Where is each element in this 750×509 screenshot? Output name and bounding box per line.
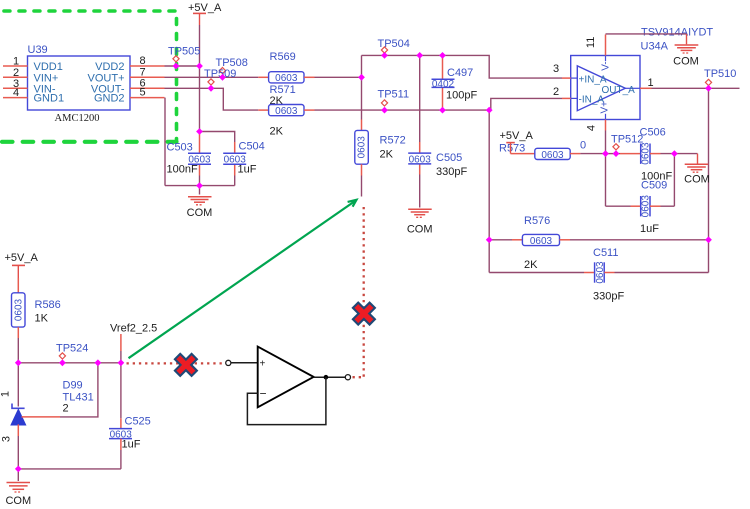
svg-text:COM: COM [673,56,699,68]
wire bottom rail [18,468,121,470]
svg-text:R571: R571 [270,84,296,96]
svg-text:0402: 0402 [432,79,455,90]
capacitor C509 [606,154,675,235]
test point TP504 [378,38,410,53]
svg-text:U39: U39 [28,44,48,56]
op-amp pin 4 [586,120,606,154]
svg-text:8: 8 [140,55,146,67]
svg-text:VDD2: VDD2 [95,61,124,73]
test point TP524 [56,343,88,360]
wire GND2 down to cap rail [164,98,166,186]
svg-text:TP524: TP524 [56,343,88,355]
junction C505 / top rail [416,52,423,59]
svg-text:R586: R586 [35,299,61,311]
svg-text:11: 11 [585,37,597,48]
test point TP511 [378,89,410,107]
IC U39 pin 8 stub [130,55,165,67]
test point TP509 [204,68,236,85]
capacitor C511 [489,240,708,303]
junction TP504 / top rail [381,52,388,59]
capacitor C497 [432,55,478,109]
svg-text:0603: 0603 [641,142,652,165]
junction TP511 / R571 wire [381,107,388,114]
svg-text:C503: C503 [167,142,193,154]
svg-text:GND1: GND1 [34,93,65,105]
svg-text:C511: C511 [593,247,618,259]
resistor R569 [269,51,315,107]
svg-text:TP511: TP511 [378,89,410,101]
svg-text:U34A: U34A [641,41,669,53]
svg-text:COM: COM [407,224,433,236]
red dotted stub to buffer output [353,376,365,378]
svg-text:+5V_A: +5V_A [188,2,222,14]
resistor R576 [489,215,708,271]
wire pin11 to COM [606,33,687,35]
resistor R571 [269,84,315,138]
buffer op-amp annotation [226,347,351,425]
ground COM U34A [673,34,699,68]
wire VDD2 to +5V rail [165,65,200,67]
junction VDD2 / +5V_A rail [196,63,203,70]
wire op-amp output [652,88,740,240]
op-amp pin 11 [585,35,606,56]
svg-text:COM: COM [187,207,213,219]
svg-text:5: 5 [140,87,146,99]
junction R576 right / output vertical [705,236,712,243]
IC U39 pin 2 [3,67,28,79]
svg-text:2K: 2K [524,259,538,271]
junction TP510 / output node [705,85,712,92]
svg-text:1uF: 1uF [122,439,141,451]
svg-text:COM: COM [5,495,31,507]
test point TP510 [704,68,736,86]
junction R569 / R572 node [358,74,365,81]
junction Vref net / C525 [118,359,125,366]
junction pin4 / R573 / C509 node [602,150,609,157]
svg-text:0603: 0603 [595,261,606,284]
junction R586 / Vref rail [15,359,22,366]
red dotted vertical (deleted wire) [363,207,365,377]
deleted-connection marker X1 [180,359,191,370]
svg-text:4: 4 [13,87,19,99]
svg-text:0603: 0603 [409,154,432,165]
svg-text:+5V_A: +5V_A [5,252,39,264]
green dashed highlight box [2,11,177,142]
svg-text:3: 3 [553,63,559,75]
svg-text:330pF: 330pF [593,291,624,303]
svg-text:0603: 0603 [541,150,564,161]
svg-text:1K: 1K [35,313,49,325]
wire cap bottom rail [165,185,235,187]
svg-text:0603: 0603 [641,195,652,218]
svg-text:1uF: 1uF [640,223,659,235]
junction D99 ref / Vref rail [95,359,102,366]
ground COM under C503 [187,186,213,219]
wire +5V_A vertical rail [199,25,201,132]
svg-text:C509: C509 [641,180,667,192]
svg-text:+IN_A: +IN_A [579,74,607,85]
junction C506-C509 / ground node [671,150,678,157]
svg-text:1: 1 [0,391,12,397]
ground COM right of C506 [684,154,710,186]
svg-text:R572: R572 [380,135,406,147]
svg-text:Vref2_2.5: Vref2_2.5 [110,323,157,335]
svg-text:1uF: 1uF [238,164,257,176]
junction TP509 / VOUT- wire [208,85,215,92]
wire R571 row to opamp pin2 [315,109,490,111]
svg-text:C497: C497 [447,67,473,79]
deleted-connection marker X2 [358,308,369,319]
capacitor C504 [223,141,265,186]
svg-text:TP510: TP510 [704,68,736,80]
resistor R586 [12,278,61,363]
IC U39 [28,44,131,124]
svg-text:C504: C504 [239,141,265,153]
svg-text:OUT_A: OUT_A [602,85,636,96]
junction TL431 anode / ground rail [15,466,22,473]
IC U39 pin 1 [3,56,28,68]
svg-text:1: 1 [13,56,19,68]
svg-text:R573: R573 [499,143,525,155]
svg-text:2K: 2K [380,149,394,161]
resistor R573 [511,140,606,161]
wire Vref rail [18,362,121,364]
svg-text:C506: C506 [640,127,666,139]
svg-text:R576: R576 [524,215,550,227]
svg-text:1: 1 [648,77,654,89]
svg-text:C525: C525 [125,416,151,428]
svg-text:TSV914AIYDT: TSV914AIYDT [641,27,713,39]
test point TP505 [168,46,200,62]
op-amp U34A [571,27,714,120]
op-amp pin 3 stub [553,63,571,78]
svg-text:+: + [260,359,266,370]
red dotted horizontal (deleted wire) [127,362,226,364]
wire TP512 node to C506 [606,153,621,155]
svg-text:R569: R569 [270,51,296,63]
wire R569 to node [315,76,362,78]
power +5V_A bottom left [5,252,39,278]
svg-text:V+: V+ [600,101,611,114]
svg-text:2K: 2K [270,126,284,138]
test point TP508 [216,57,248,74]
capacitor C506 [620,127,672,183]
capacitor C525 [109,363,151,469]
svg-text:C505: C505 [436,152,462,164]
op-amp pin 1 stub [640,77,654,89]
shunt regulator D99 TL431 [0,363,98,469]
svg-text:V-: V- [600,61,611,70]
junction pin2 / feedback node [486,107,493,114]
svg-text:4: 4 [586,125,598,131]
test point TP512 [611,134,643,150]
junction feedback / R576 left [486,236,493,243]
IC U39 pin 4 [3,87,28,99]
svg-text:D99: D99 [63,380,83,392]
svg-text:VDD1: VDD1 [34,61,63,73]
op-amp pin 2 stub [553,86,571,98]
svg-text:−: − [260,387,267,401]
power +5V_A top [188,2,222,25]
junction TP505 / VDD2 wire [173,63,180,70]
junction TP508 / VOUT+ wire [219,74,226,81]
svg-text:0603: 0603 [275,73,298,84]
svg-text:2: 2 [553,86,559,98]
svg-text:3: 3 [1,436,13,442]
wire feedback left vertical [488,110,490,272]
IC U39 pin 7 stub [130,66,165,78]
ground COM under C505 [407,175,433,236]
junction C503 bottom / ground rail [196,182,203,189]
svg-text:100pF: 100pF [446,90,477,102]
svg-text:100nF: 100nF [167,164,198,176]
power +5V_A at R573 [499,130,533,155]
svg-text:COM: COM [684,174,710,186]
wire node vertical to R572 [361,55,363,119]
junction TP524 / Vref rail [59,359,66,366]
IC U39 pin 6 stub [130,77,165,89]
wire VOUT- to R571 [165,88,269,110]
svg-text:0603: 0603 [357,136,368,159]
junction C497 / R571 wire [439,107,446,114]
svg-text:0603: 0603 [275,106,298,117]
svg-text:330pF: 330pF [436,166,467,178]
IC U39 pin 5 stub [130,87,165,99]
resistor R572 [355,120,406,197]
svg-text:2: 2 [63,403,69,415]
wire cap top rail [200,132,235,143]
wire C506 to ground node [661,153,698,155]
svg-text:0: 0 [580,140,586,152]
svg-text:0603: 0603 [13,298,24,321]
junction TP512 [613,150,620,157]
svg-text:+5V_A: +5V_A [500,130,534,142]
svg-text:AMC1200: AMC1200 [55,113,100,124]
net label Vref2_2.5 [110,323,157,363]
svg-text:0603: 0603 [530,236,553,247]
wire VOUT+ to R569 [165,76,269,78]
wire top rail to opamp pin3 [362,55,563,78]
IC U39 pin 3 [3,78,28,90]
capacitor C503 [167,132,212,186]
svg-text:TP505: TP505 [168,46,200,58]
junction +5V rail / C503-C504 top [196,128,203,135]
ground COM bottom left [5,469,31,507]
capacitor C505 [408,55,467,178]
green annotation arrow [129,200,357,358]
svg-text:GND2: GND2 [94,93,125,105]
junction C497 / top rail [439,52,446,59]
